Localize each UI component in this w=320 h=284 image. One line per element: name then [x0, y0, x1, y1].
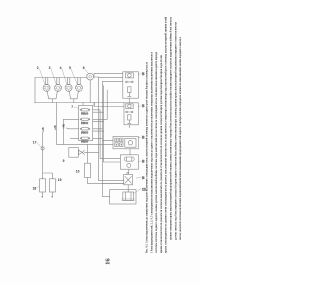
svg-text:2: 2: [37, 66, 39, 70]
relay row RV4 label: [81, 141, 88, 143]
svg-text:Рис. 9.3. Схема подключения до: Рис. 9.3. Схема подключения до завершени…: [145, 62, 149, 253]
caption line 2: [149, 52, 153, 253]
wire resistor R1 lead: [42, 192, 43, 197]
motor M5: [76, 78, 83, 92]
relay row RV3 label: [81, 132, 88, 135]
wire vertical bus V7: [101, 82, 103, 197]
relay row RV1: [80, 109, 90, 111]
svg-text:10: 10: [76, 170, 80, 174]
caption line 5: [164, 17, 168, 253]
caption line 7: [173, 22, 177, 240]
svg-text:крана электродвигатель уровня: крана электродвигатель уровня свечи элек…: [164, 17, 168, 253]
relay row RV3: [80, 128, 90, 130]
relay K3: [120, 155, 138, 169]
node label B: [138, 104, 145, 108]
page number 16: [105, 258, 112, 265]
node +AB label 3: [63, 124, 66, 129]
relay row RV4: [80, 137, 90, 139]
wire ammeter down: [89, 80, 91, 103]
wire relay row2 left: [63, 119, 78, 144]
caption line 8: [178, 37, 182, 240]
svg-text:РВ3 О: РВ3 О: [81, 123, 88, 125]
motor pump label: [63, 159, 65, 163]
wire vertical V2: [56, 103, 58, 145]
wire D left bottom: [104, 161, 121, 163]
svg-text:системы системы заднего заднег: системы системы заднего заднего лампы да…: [154, 52, 158, 253]
svg-text:4: 4: [60, 66, 62, 70]
ammeter label 6: [83, 66, 85, 70]
relay row RV1 label: [81, 114, 88, 116]
wire to switch E: [99, 180, 124, 182]
svg-text:массы указателя системы включе: массы указателя системы включения перено…: [178, 37, 182, 240]
motor M3: [55, 78, 62, 92]
relay row RV2 label: [81, 123, 88, 125]
svg-text:7: 7: [71, 105, 73, 109]
wire motor pair 1 bottom: [47, 91, 57, 102]
wire resistor branch: [43, 173, 53, 179]
switch block S1: [113, 136, 138, 148]
wire S1 to D: [129, 149, 131, 155]
wire relay row4 left: [70, 137, 78, 139]
motor labels 2 3 4 5: [37, 66, 71, 70]
node label Vk: [138, 135, 145, 139]
wire pump right: [84, 151, 98, 153]
wire D left top: [100, 157, 120, 159]
resistor R3 label: [76, 170, 80, 174]
leader line label 6: [85, 70, 88, 74]
wire left edge: [34, 78, 36, 104]
caption line 6: [169, 17, 173, 240]
svg-text:РВ2 О: РВ2 О: [81, 114, 88, 116]
node label 12: [134, 187, 146, 193]
svg-text:9: 9: [63, 159, 65, 163]
wire S1 left: [102, 139, 113, 141]
wire bus middle: [57, 143, 113, 145]
node label 15: [136, 176, 145, 180]
wire stub bus to relay block: [83, 103, 95, 106]
wire to contactor K1 row1: [94, 74, 123, 78]
wire vertical bus V5: [98, 77, 100, 181]
node label 14: [138, 159, 145, 163]
leader line fuse: [37, 142, 42, 147]
caption line 3: [154, 52, 158, 253]
wire V7 to switch E: [102, 183, 124, 185]
wire bottom bus: [35, 102, 124, 104]
wire R3 bottom: [88, 178, 125, 184]
wire to contactor K1 row3: [102, 81, 122, 83]
motor M2: [43, 78, 50, 92]
fuse label P: [33, 140, 37, 144]
resistor R3: [85, 163, 91, 177]
svg-text:+АБ: +АБ: [42, 127, 45, 132]
wire to contactor K1 row2: [99, 77, 123, 79]
wire vertical bus V8: [103, 86, 105, 162]
wire relay row3 right: [93, 129, 104, 131]
wire E to F: [127, 185, 129, 192]
wire K1 to K2: [128, 98, 130, 103]
svg-text:+АБ: +АБ: [63, 124, 66, 129]
caption line 1: [145, 62, 149, 253]
svg-text:19: 19: [58, 178, 62, 182]
node +AB label 1: [42, 127, 45, 132]
svg-text:+АБ: +АБ: [54, 125, 57, 130]
wire vertical bus V9: [106, 90, 108, 119]
relay block label RV: [71, 105, 78, 109]
wire top bus: [35, 77, 87, 79]
svg-text:крана стеклоочистителя указате: крана стеклоочистителя указателя сигнала…: [159, 55, 163, 253]
resistor R2 label: [56, 178, 62, 182]
svg-text:16: 16: [105, 258, 112, 265]
svg-text:6: 6: [83, 66, 85, 70]
svg-text:17: 17: [33, 140, 37, 144]
wire to relay K2 top: [94, 103, 124, 107]
relay K2: [124, 103, 138, 125]
wire relay row1 right: [93, 110, 104, 112]
wire relay row2 right: [93, 119, 108, 121]
svg-text:РВ4 О: РВ4 О: [81, 132, 88, 135]
wire ammeter right: [94, 76, 99, 78]
wire K2 bottom stub: [128, 125, 130, 128]
node label 5a: [138, 72, 145, 76]
wire R3 top: [87, 144, 89, 163]
svg-text:РВ5 О: РВ5 О: [81, 141, 88, 143]
leader line label 5: [71, 69, 77, 84]
svg-text:18: 18: [33, 186, 37, 190]
motor M4: [65, 78, 72, 92]
motor pump M7: [69, 148, 85, 158]
svg-text:3: 3: [49, 66, 51, 70]
node +AB label 2: [54, 125, 57, 130]
resistor R1: [40, 179, 46, 192]
switch S2: [124, 173, 133, 185]
contactor K1: [123, 72, 139, 98]
leader line label 4: [62, 69, 67, 84]
horn relay K4: [102, 190, 136, 204]
relay block U1: [79, 105, 93, 140]
fuse F1: [41, 147, 44, 150]
wire relay row3 left: [67, 127, 79, 130]
wire vertical bus V6: [99, 110, 101, 159]
ammeter A1: [86, 73, 93, 80]
svg-text:уровня освещения крана аккумул: уровня освещения крана аккумуляторной пр…: [169, 17, 173, 240]
caption line 4: [159, 55, 163, 253]
svg-text:1 блок предохранителей; 2, 3,: 1 блок предохранителей; 2, 3, 4, 5 элект…: [149, 52, 153, 253]
wire motor pair 2 bottom: [69, 91, 78, 102]
wire relay row4 right: [93, 137, 103, 139]
resistor R2: [50, 179, 56, 192]
svg-text:5: 5: [69, 66, 71, 70]
wire battery feed: [42, 132, 44, 179]
leader line label 2: [40, 69, 45, 84]
wire resistor R2 lead: [52, 192, 53, 197]
relay row RV2: [80, 118, 90, 120]
svg-text:датчик сигнала хода блок перед: датчик сигнала хода блок переднего сигна…: [173, 22, 177, 240]
leader line label 3: [51, 69, 56, 84]
resistor R1 label: [33, 186, 40, 190]
wire D to E: [128, 169, 130, 173]
